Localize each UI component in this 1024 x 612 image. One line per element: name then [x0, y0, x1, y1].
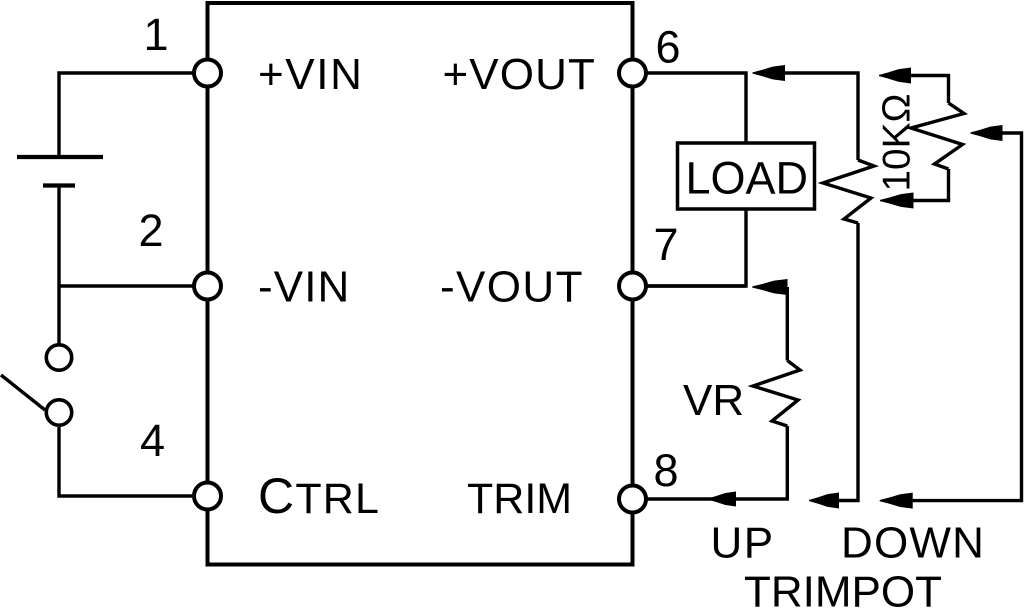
switch S1 lever	[1, 375, 45, 410]
svg-text:TRIM: TRIM	[467, 475, 572, 523]
arrow wiper of 10K pot	[971, 125, 1003, 141]
wire pin 6 to LOAD top	[647, 73, 746, 143]
wire wiper to right edge down to TRIM row	[911, 133, 1022, 501]
wire battery to pin 2	[59, 284, 193, 287]
battery B1 positive wire	[59, 73, 193, 157]
svg-text:1: 1	[143, 9, 168, 60]
potentiometer 10K zigzag	[911, 103, 964, 169]
arrow DOWN connection at TRIM	[880, 493, 913, 509]
resistor upper half of trimpot (left zigzag)	[823, 160, 874, 223]
svg-text:UP: UP	[711, 519, 775, 568]
battery B1 short plate	[43, 183, 75, 187]
LOAD box	[678, 143, 815, 209]
switch S1 upper contact	[46, 345, 71, 370]
svg-text:DOWN: DOWN	[841, 519, 985, 568]
svg-text:6: 6	[655, 22, 680, 73]
pin 1	[194, 60, 221, 87]
arrow pot bottom pointing to left zigzag	[880, 193, 914, 209]
svg-text:VR: VR	[683, 376, 744, 425]
pin 2	[194, 273, 221, 300]
arrow UP connection at TRIM	[809, 493, 839, 509]
wire switch to pin 4	[59, 427, 193, 496]
svg-text:10KΩ: 10KΩ	[876, 93, 919, 191]
pin 7	[619, 273, 646, 300]
wire pin 7 to VR top corner	[647, 284, 746, 287]
svg-text:-VIN: -VIN	[258, 263, 350, 312]
svg-text:+VIN: +VIN	[258, 50, 363, 99]
wire 10K pot bottom with arrow	[911, 169, 949, 201]
svg-text:7: 7	[653, 219, 678, 270]
resistor VR zigzag	[753, 361, 800, 427]
battery B1 long plate	[17, 155, 103, 159]
svg-text:CTRL: CTRL	[258, 468, 380, 524]
svg-text:4: 4	[140, 415, 165, 466]
wire VR bottom to pin 8	[647, 426, 787, 499]
pin 6	[619, 60, 646, 87]
pin 4	[194, 483, 221, 510]
wire VR top lead	[786, 287, 789, 361]
svg-text:2: 2	[138, 205, 163, 256]
svg-text:8: 8	[653, 445, 678, 496]
converter module box U1	[208, 3, 633, 565]
arrow UP on pin 8 wire	[708, 492, 736, 507]
svg-text:TRIMPOT: TRIMPOT	[744, 568, 942, 612]
wire to 10K pot top	[909, 76, 949, 104]
switch S1 lower contact	[46, 400, 71, 425]
svg-text:LOAD: LOAD	[686, 153, 809, 204]
battery B1 negative wire down to switch	[57, 186, 60, 345]
arrow into -VOUT wire	[752, 279, 787, 295]
arrow into 10K pot top	[879, 68, 911, 84]
wire LOAD bottom to pin 7	[647, 209, 746, 286]
svg-text:+VOUT: +VOUT	[443, 50, 596, 99]
svg-text:-VOUT: -VOUT	[440, 263, 584, 312]
wire left zigzag bottom down to TRIM row	[838, 223, 858, 501]
pin 8	[619, 486, 646, 513]
arrow into +VOUT wire	[753, 65, 786, 81]
wire arrow to trimpot top terminal	[783, 73, 858, 160]
